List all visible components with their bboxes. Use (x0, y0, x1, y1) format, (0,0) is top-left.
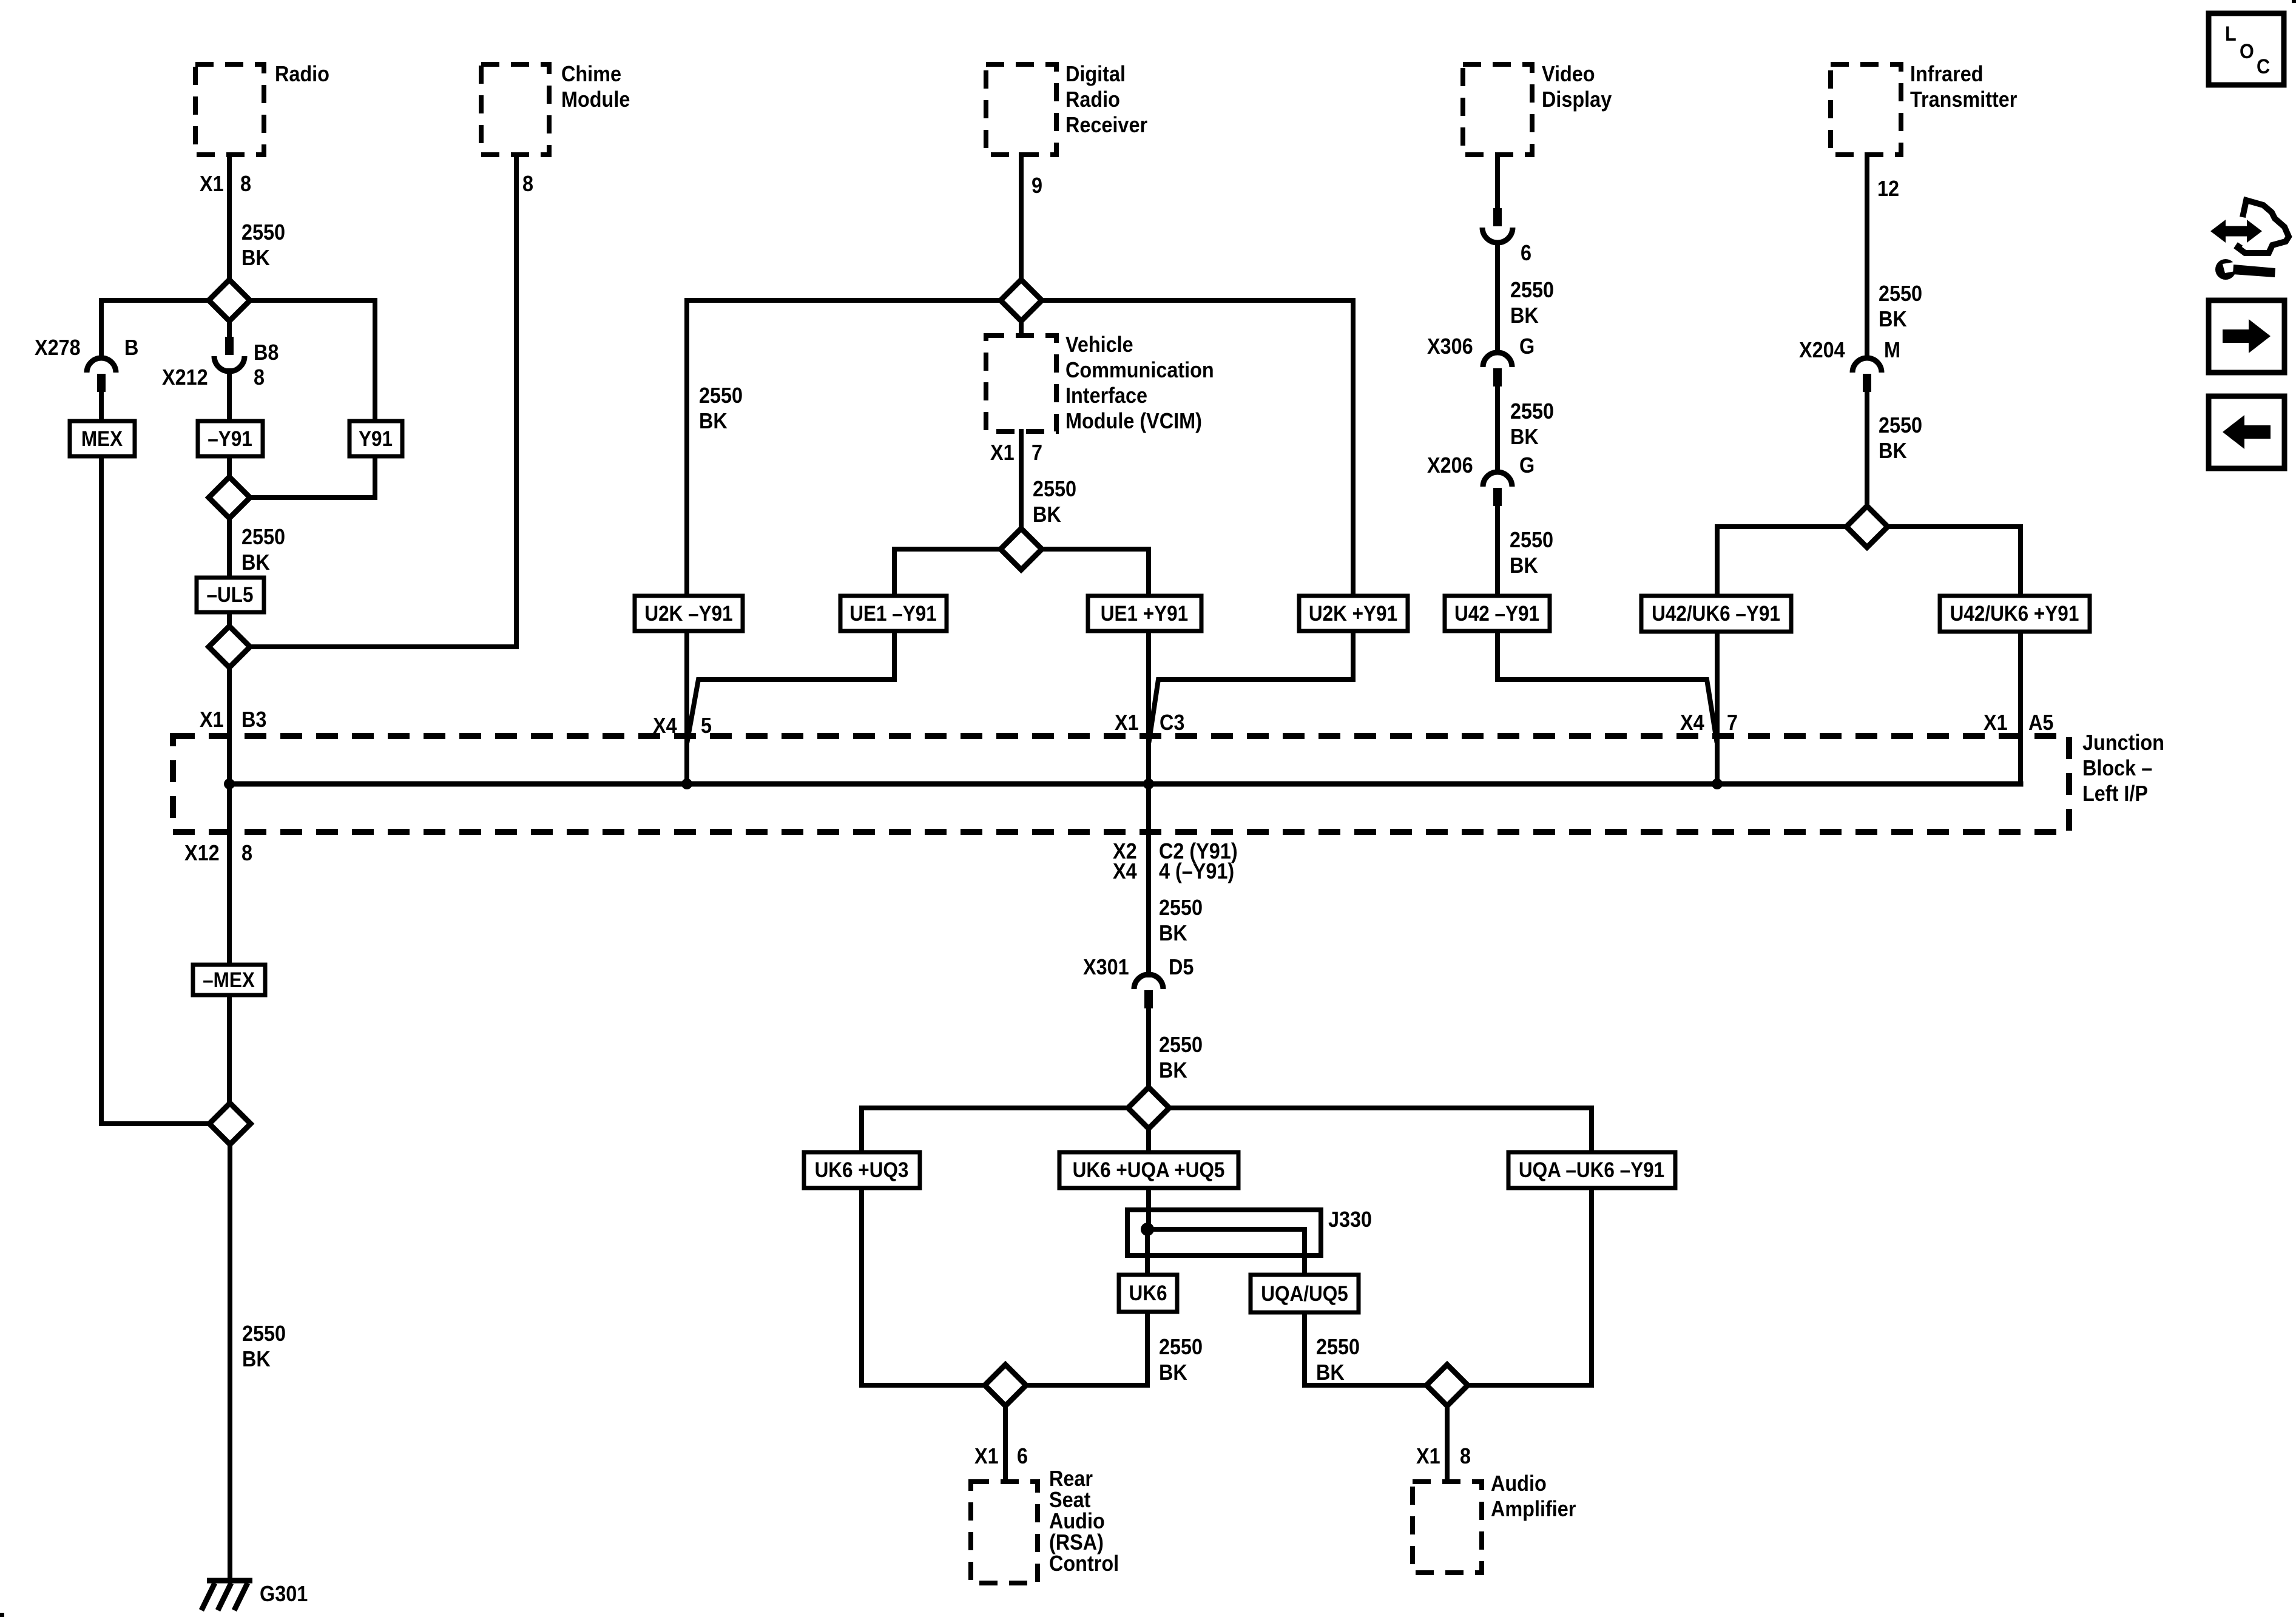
wire X12 8 to -MEX (227, 784, 232, 965)
connector video display pin 6 (1482, 208, 1513, 243)
svg-text:G: G (1519, 453, 1535, 478)
option box UQA/UQ5 (1251, 1275, 1359, 1312)
wire splice right to U2K +Y91 (1041, 300, 1353, 596)
page artifact dot bottom left (0, 1613, 4, 1617)
wire splice to UK6 +UQA +UQ5 (1146, 1129, 1151, 1152)
svg-text:Display: Display (1542, 87, 1612, 112)
svg-text:X1: X1 (974, 1444, 999, 1468)
svg-text:BK: BK (1033, 502, 1061, 527)
svg-text:BK: BK (1159, 921, 1187, 945)
svg-text:–Y91: –Y91 (208, 428, 252, 451)
svg-text:2550: 2550 (241, 525, 285, 549)
wire splice2 to -UL5 (227, 519, 232, 578)
wrench part of DLC icon (2215, 259, 2275, 280)
svg-text:X278: X278 (35, 336, 81, 360)
svg-text:Block –: Block – (2082, 756, 2152, 780)
svg-text:D5: D5 (1169, 955, 1194, 979)
svg-text:8: 8 (522, 172, 533, 196)
wire Infrared Transmitter pin 12 to X204 (1865, 155, 1869, 358)
wire VCIM splice right to UE1 +Y91 (1041, 549, 1149, 596)
splice S6 VCIM (1001, 528, 1042, 570)
wire amplifier splice to Audio Amplifier X1 8 (1445, 1406, 1450, 1482)
svg-text:X1: X1 (1984, 711, 2008, 735)
svg-text:X4: X4 (1113, 859, 1137, 883)
component Chime Module (dashed box) (481, 64, 549, 155)
svg-text:BK: BK (699, 409, 728, 433)
wire -UL5 to splice3 (227, 612, 232, 627)
svg-text:2550: 2550 (1879, 413, 1922, 437)
wire U2K -Y91 to junction X4 5 (684, 631, 689, 784)
node X1 B3 bus junction (224, 778, 235, 789)
svg-text:BK: BK (1879, 307, 1907, 331)
svg-text:UQA/UQ5: UQA/UQ5 (1261, 1283, 1348, 1306)
option box UK6 +UQ3 (804, 1152, 920, 1188)
svg-text:2550: 2550 (699, 383, 743, 408)
svg-text:Amplifier: Amplifier (1491, 1497, 1576, 1521)
svg-text:6: 6 (1521, 241, 1531, 265)
component Radio (dashed box) (195, 64, 264, 155)
wire J330 bus bar to UQA/UQ5 (1147, 1229, 1305, 1275)
svg-text:(RSA): (RSA) (1049, 1530, 1104, 1555)
wire splice to pin B8 (227, 321, 232, 337)
junction block - left I/P dashed outline (173, 736, 2069, 832)
svg-text:BK: BK (1510, 553, 1538, 578)
option box -UL5 (197, 578, 264, 612)
svg-text:X212: X212 (162, 365, 208, 390)
option box U42/UK6 +Y91 (1940, 596, 2090, 632)
svg-text:Y91: Y91 (359, 428, 393, 451)
svg-text:X206: X206 (1427, 453, 1473, 478)
wire UK6 to RSA splice (1027, 1312, 1147, 1385)
svg-text:X4: X4 (1680, 711, 1704, 735)
svg-text:Module: Module (561, 87, 630, 112)
wire VCIM pin X1 7 to splice (1019, 431, 1024, 528)
option box UK6 (1119, 1275, 1177, 1312)
wire lower-left splice to G301 (228, 1144, 232, 1578)
option box U42 -Y91 (1445, 596, 1550, 631)
wire splice left to UK6 +UQ3 (862, 1108, 1128, 1152)
wire X212 to -Y91 (227, 371, 232, 421)
wire Chime Module pin 8 down to splice3 (250, 155, 516, 647)
svg-text:Module (VCIM): Module (VCIM) (1065, 409, 1202, 433)
svg-text:Radio: Radio (1065, 87, 1120, 112)
svg-text:X1: X1 (990, 441, 1015, 465)
wire UQA/UQ5 to amplifier splice (1305, 1312, 1427, 1385)
svg-text:M: M (1884, 338, 1900, 362)
svg-text:2550: 2550 (242, 1322, 286, 1346)
svg-text:9: 9 (1032, 174, 1042, 198)
svg-text:Infrared: Infrared (1910, 62, 1984, 86)
component Rear Seat Audio RSA Control (dashed box) (971, 1482, 1038, 1583)
svg-text:Junction: Junction (2082, 731, 2164, 755)
svg-text:BK: BK (1879, 439, 1907, 463)
wire X301 D5 to splice (1146, 1009, 1151, 1087)
option box MEX (70, 421, 135, 456)
option box -Y91 (198, 421, 263, 456)
splice S8 below junction block (1128, 1087, 1169, 1129)
option box Y91 (349, 421, 402, 456)
wire X206 to U42 -Y91 (1495, 505, 1500, 596)
svg-text:Chime: Chime (561, 62, 621, 86)
wire X278 to MEX (99, 393, 104, 421)
svg-text:X1: X1 (200, 707, 224, 732)
option box U42/UK6 -Y91 (1641, 596, 1791, 632)
svg-text:J330: J330 (1328, 1207, 1372, 1232)
connector X306 pin G (1483, 353, 1512, 387)
data link connector icon (car with arrow and wrench) (2218, 200, 2289, 253)
wire RSA splice to Rear Seat Audio Control X1 6 (1003, 1406, 1008, 1482)
svg-text:Left I/P: Left I/P (2082, 781, 2148, 806)
svg-text:X1: X1 (200, 172, 224, 196)
svg-text:UK6: UK6 (1129, 1282, 1167, 1306)
svg-text:B: B (124, 336, 138, 360)
svg-text:L: L (2225, 22, 2237, 46)
component VCIM (dashed box) (986, 336, 1056, 431)
connector X212 pin B8/8 (214, 337, 245, 371)
wire splice right to UQA -UK6 -Y91 (1169, 1108, 1592, 1152)
svg-text:A5: A5 (2028, 711, 2053, 735)
wire Radio pin 8 to splice (227, 155, 232, 300)
svg-text:U42/UK6 +Y91: U42/UK6 +Y91 (1950, 603, 2079, 626)
svg-text:X1: X1 (1115, 711, 1139, 735)
option box UE1 +Y91 (1088, 596, 1201, 631)
svg-text:B8: B8 (254, 340, 279, 365)
option box UE1 -Y91 (840, 596, 947, 631)
svg-text:12: 12 (1877, 177, 1899, 201)
wire UE1 +Y91 to junction X1 C3 (1146, 631, 1151, 784)
svg-text:BK: BK (241, 550, 270, 575)
wire Y91 down to splice2 (250, 456, 375, 498)
svg-text:UE1 +Y91: UE1 +Y91 (1101, 603, 1188, 626)
wire U42/UK6 +Y91 to junction X1 A5 (2018, 632, 2023, 784)
svg-text:Rear: Rear (1049, 1467, 1093, 1491)
svg-text:8: 8 (241, 841, 252, 865)
svg-text:2550: 2550 (1510, 528, 1553, 552)
svg-text:C: C (2257, 55, 2270, 78)
svg-text:–MEX: –MEX (203, 969, 255, 993)
svg-text:–UL5: –UL5 (206, 584, 253, 607)
svg-text:5: 5 (701, 714, 712, 738)
splice S1 radio ground distribution (209, 280, 250, 321)
svg-text:UQA –UK6 –Y91: UQA –UK6 –Y91 (1519, 1159, 1664, 1183)
wire splice to VCIM box (1019, 321, 1024, 336)
svg-text:2550: 2550 (1159, 1033, 1203, 1057)
component Digital Radio Receiver (dashed box) (986, 64, 1056, 155)
option box UK6 +UQA +UQ5 (1059, 1152, 1238, 1188)
svg-text:X204: X204 (1799, 338, 1845, 362)
wire -MEX to lower-left splice (227, 995, 232, 1103)
svg-text:U42 –Y91: U42 –Y91 (1454, 603, 1539, 626)
svg-text:X1: X1 (1416, 1444, 1440, 1468)
wire splice3 to junction block X1 B3 (227, 667, 232, 784)
svg-text:B3: B3 (241, 707, 266, 732)
wire X204 to splice (1865, 393, 1869, 506)
svg-text:UK6 +UQA +UQ5: UK6 +UQA +UQ5 (1073, 1159, 1225, 1183)
svg-text:U2K –Y91: U2K –Y91 (644, 603, 732, 626)
svg-text:UK6 +UQ3: UK6 +UQ3 (815, 1159, 909, 1183)
svg-text:2550: 2550 (1510, 399, 1554, 424)
connector X206 pin G (1483, 472, 1512, 506)
svg-text:G: G (1519, 334, 1535, 359)
svg-text:X12: X12 (184, 841, 220, 865)
wire X306 to X206 (1495, 387, 1500, 472)
svg-text:Digital: Digital (1065, 62, 1126, 86)
svg-text:UE1 –Y91: UE1 –Y91 (849, 603, 937, 626)
wire -Y91 to splice2 (227, 456, 232, 477)
svg-text:Radio: Radio (275, 62, 329, 86)
wire UK6 +UQ3 to RSA splice (862, 1188, 985, 1385)
wire splice left branch to X278 (101, 300, 209, 358)
node J330 junction (1141, 1223, 1154, 1236)
svg-text:Communication: Communication (1065, 358, 1214, 382)
wire Video Display pin to connector (1495, 155, 1500, 208)
svg-text:BK: BK (241, 246, 270, 270)
svg-text:6: 6 (1017, 1444, 1028, 1468)
wire splice left to U2K -Y91 (687, 300, 1001, 596)
node X4 7 bus junction (1712, 778, 1723, 789)
svg-text:7: 7 (1032, 441, 1042, 465)
splice S5 digital radio receiver (1001, 280, 1042, 321)
svg-text:Interface: Interface (1065, 383, 1147, 408)
svg-text:Vehicle: Vehicle (1065, 333, 1133, 357)
wire J330 to UK6 (1145, 1229, 1150, 1275)
option box UQA -UK6 -Y91 (1508, 1152, 1675, 1188)
svg-text:2550: 2550 (241, 220, 285, 245)
component Video Display (dashed box) (1463, 64, 1532, 155)
svg-text:U42/UK6 –Y91: U42/UK6 –Y91 (1652, 603, 1780, 626)
svg-text:BK: BK (1316, 1360, 1345, 1385)
svg-text:Video: Video (1542, 62, 1595, 86)
svg-text:C3: C3 (1160, 711, 1184, 735)
connector X278 pin B (87, 358, 116, 392)
splice S4 lower left (209, 1103, 251, 1144)
wire VCIM splice left to UE1 -Y91 (894, 549, 1001, 596)
svg-text:Receiver: Receiver (1065, 113, 1147, 137)
wire connector 6 to X306 (1495, 243, 1500, 353)
svg-text:BK: BK (1159, 1058, 1187, 1082)
node X1 C3 bus junction (1143, 778, 1154, 789)
node X4 5 bus junction (681, 778, 692, 789)
svg-text:X4: X4 (653, 714, 677, 738)
wire U2K +Y91 merge to X1 C3 (1149, 631, 1353, 740)
svg-text:2550: 2550 (1316, 1335, 1360, 1359)
wire UE1 -Y91 merge to X4 5 (687, 631, 894, 740)
svg-text:8: 8 (254, 365, 265, 390)
svg-text:U2K +Y91: U2K +Y91 (1309, 603, 1397, 626)
wire junction block internal bus (229, 781, 2021, 787)
wire UK6 +UQA +UQ5 into J330 (1146, 1188, 1151, 1229)
splice pack J330 (1127, 1210, 1321, 1255)
svg-text:2550: 2550 (1159, 896, 1203, 920)
splice S10 audio amplifier (1427, 1365, 1468, 1406)
svg-text:G301: G301 (260, 1582, 308, 1606)
svg-text:2550: 2550 (1510, 278, 1554, 302)
option box U2K -Y91 (635, 596, 743, 631)
svg-text:7: 7 (1727, 711, 1738, 735)
wire U42 -Y91 merge to X4 7 (1497, 631, 1717, 740)
wire splice left to U42/UK6 -Y91 (1717, 527, 1846, 596)
svg-text:X306: X306 (1427, 334, 1473, 359)
svg-text:Audio: Audio (1049, 1509, 1105, 1533)
connector X204 pin M (1852, 358, 1882, 392)
svg-text:Control: Control (1049, 1551, 1119, 1576)
splice S2 -Y91/Y91 (209, 477, 250, 518)
svg-text:2550: 2550 (1879, 282, 1922, 306)
component Infrared Transmitter (dashed box) (1831, 64, 1901, 155)
component Audio Amplifier (dashed box) (1413, 1482, 1482, 1573)
svg-text:Seat: Seat (1049, 1488, 1090, 1512)
svg-text:8: 8 (240, 172, 251, 196)
splice S7 infrared transmitter (1846, 506, 1888, 547)
connector X301 pin D5 (1134, 974, 1163, 1008)
page artifact dot top right (2292, 0, 2296, 3)
svg-text:8: 8 (1460, 1444, 1471, 1468)
svg-text:MEX: MEX (81, 428, 123, 451)
option box -MEX (193, 965, 265, 995)
svg-text:BK: BK (1510, 425, 1539, 449)
wire U42/UK6 -Y91 to junction X4 7 (1715, 632, 1720, 784)
splice S9 RSA control (985, 1365, 1026, 1406)
wire splice right to U42/UK6 +Y91 (1888, 527, 2021, 596)
svg-text:2550: 2550 (1159, 1335, 1203, 1359)
svg-text:Transmitter: Transmitter (1910, 87, 2017, 112)
svg-text:BK: BK (1510, 303, 1539, 328)
LOC legend box (2209, 13, 2284, 85)
svg-text:BK: BK (1159, 1360, 1187, 1385)
svg-text:X301: X301 (1083, 955, 1129, 979)
option box U2K +Y91 (1299, 596, 1408, 631)
wire Digital Radio Receiver pin 9 to splice (1019, 155, 1024, 300)
svg-text:O: O (2240, 40, 2254, 63)
wire junction X2 C2 down to X301 (1146, 784, 1151, 975)
ground G301 (201, 1581, 252, 1610)
wire UQA -UK6 -Y91 to amplifier splice (1467, 1188, 1592, 1385)
back arrow box (2209, 396, 2284, 468)
wire MEX down to lower-left splice (101, 456, 210, 1124)
wire splice right branch to Y91 (250, 300, 375, 421)
svg-text:BK: BK (242, 1347, 271, 1371)
svg-text:Audio: Audio (1491, 1471, 1547, 1496)
svg-text:2550: 2550 (1033, 477, 1076, 501)
forward arrow box (2209, 300, 2284, 373)
splice S3 -UL5/chime (209, 626, 250, 667)
svg-text:4 (–Y91): 4 (–Y91) (1159, 859, 1234, 883)
